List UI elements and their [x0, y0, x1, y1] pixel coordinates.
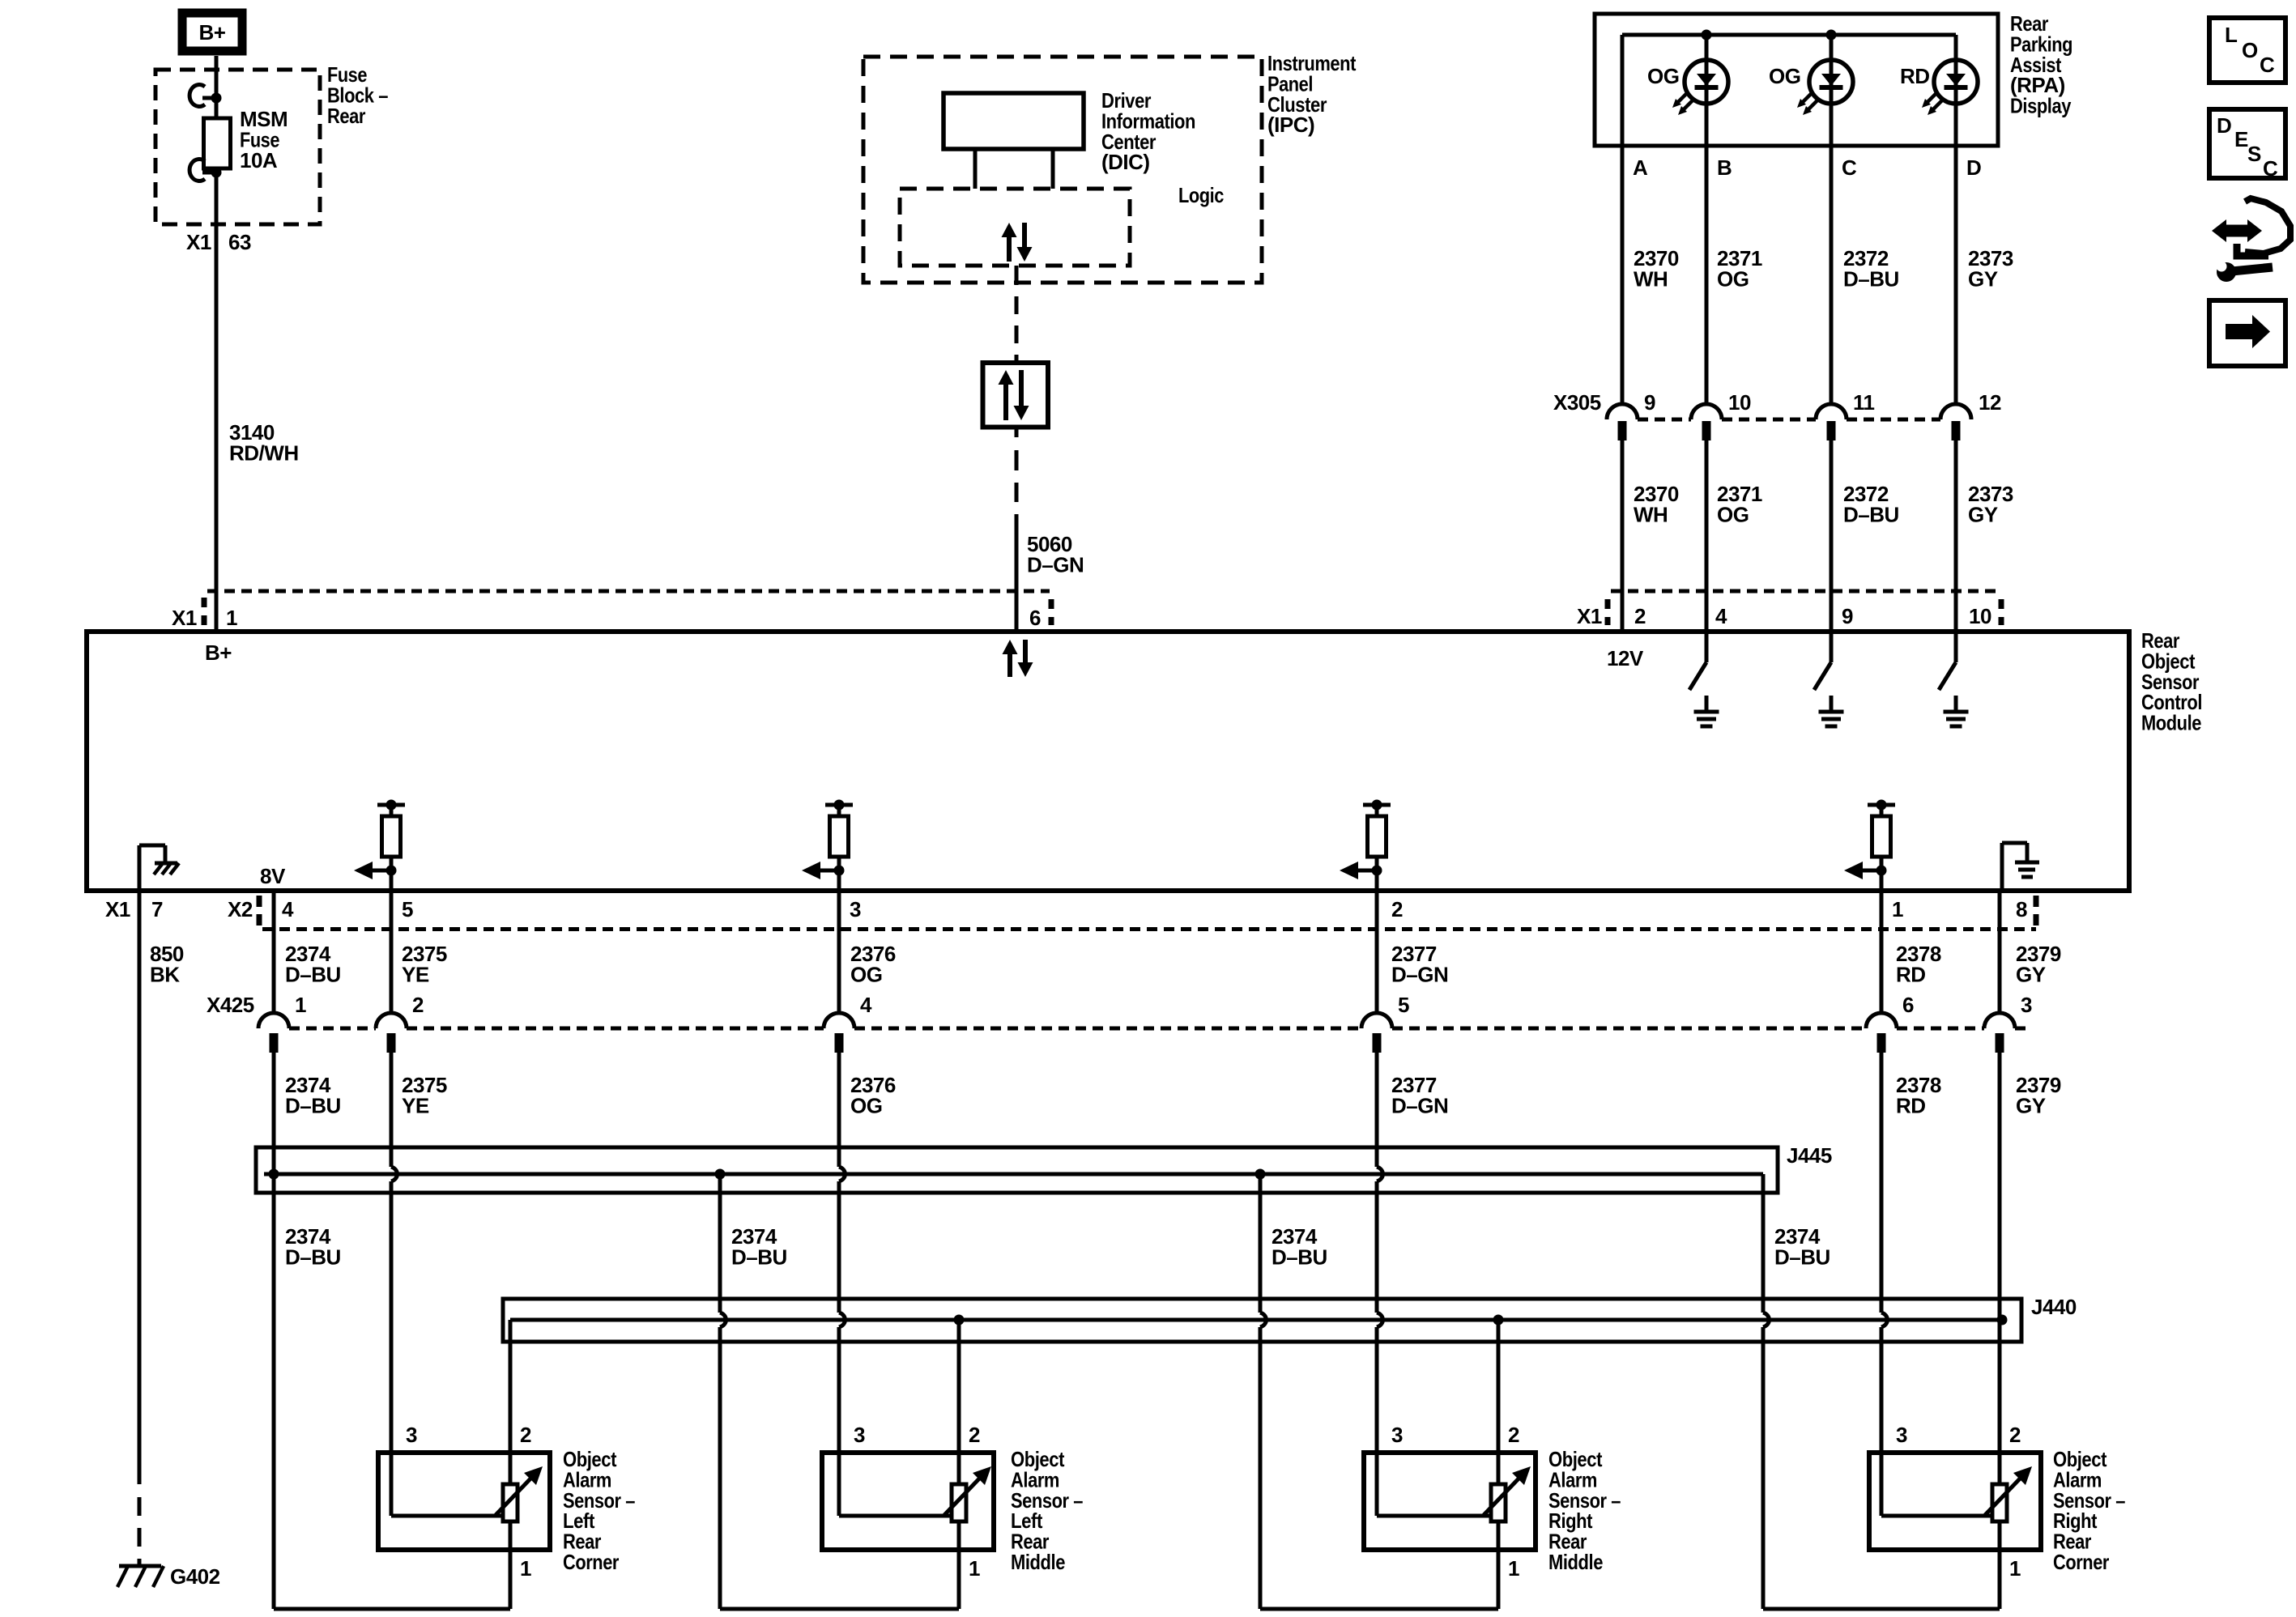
J440 hop 2377 [1377, 1313, 1382, 1327]
fuse terminal clip top [190, 85, 205, 107]
connector X425 dashed line [289, 1027, 376, 1031]
splice pack J445 [256, 1147, 1778, 1193]
wire serial data from Logic [1015, 266, 1019, 285]
J445 junction tap right-middle [1255, 1169, 1266, 1180]
wire X2-8 to X425-3 [1998, 891, 2002, 1013]
sensor 3 pin2 wire [1497, 1453, 1501, 1550]
object alarm sensor 1 box [378, 1453, 550, 1550]
svg-text:A: A [1633, 155, 1648, 180]
wire sensor4 pin1 return [1998, 1550, 2002, 1609]
junction dot B [1702, 30, 1712, 40]
svg-text:1: 1 [1508, 1556, 1519, 1581]
module resistor arrow pin 5 [377, 803, 405, 807]
module internal ground left [138, 845, 142, 891]
connector X425 pin 3 [1984, 1013, 2015, 1028]
wire 850 BK [138, 891, 142, 1484]
svg-text:J440: J440 [2031, 1295, 2077, 1319]
svg-text:Corner: Corner [563, 1550, 619, 1574]
svg-text:X1: X1 [1577, 604, 1602, 628]
module resistor arrow pin 1 [1868, 803, 1895, 807]
module internal ground right [2000, 843, 2004, 891]
svg-text:Rear: Rear [327, 104, 365, 128]
module switch and ground pin 4 [1705, 632, 1709, 662]
svg-text:2: 2 [1391, 897, 1403, 921]
svg-text:B: B [1717, 155, 1732, 180]
fuse block dashed outline [155, 70, 320, 224]
svg-text:1: 1 [969, 1556, 980, 1581]
sensor 4 variable resistor [1992, 1484, 2007, 1521]
sensor 4 pin2 wire [1998, 1453, 2002, 1550]
J445 hop 2375 [391, 1167, 397, 1181]
svg-text:(DIC): (DIC) [1101, 150, 1150, 174]
svg-text:Middle: Middle [1011, 1550, 1065, 1574]
svg-text:Corner: Corner [2053, 1550, 2109, 1574]
icon DESC box [2209, 109, 2285, 178]
wire A inside display [1621, 35, 1625, 404]
connector X425 pin 1 [258, 1013, 289, 1028]
connector X305 pin 9 [1607, 404, 1638, 419]
module serial arrows pin 6 [1003, 640, 1018, 654]
icon hand with arrow and wrench [2223, 225, 2251, 237]
connector X1 separator left [202, 598, 207, 625]
wire sensor1 pin1 return [509, 1550, 513, 1609]
icon LOC box [2209, 18, 2285, 83]
LED OG middle [1809, 60, 1853, 104]
connector X425 pin 6 [1866, 1013, 1897, 1028]
J440 hop mid [1260, 1313, 1266, 1327]
wire X2-4 to X425-1 [272, 891, 276, 1013]
svg-text:5: 5 [1398, 993, 1409, 1017]
svg-text:OG: OG [1717, 502, 1749, 526]
svg-text:4: 4 [860, 993, 872, 1017]
wire X2-3 to X425-4 [837, 891, 841, 1013]
svg-text:D: D [2217, 113, 2231, 138]
wire 3140 RD/WH [215, 168, 219, 632]
svg-text:RD: RD [1896, 962, 1926, 986]
svg-text:10: 10 [1969, 604, 1991, 628]
svg-text:1: 1 [226, 606, 237, 630]
connector X2 dashed line [262, 927, 2036, 931]
svg-text:G402: G402 [170, 1564, 220, 1589]
svg-text:3: 3 [2021, 993, 2032, 1017]
wire 5060 D-GN dashed [1015, 427, 1019, 437]
svg-text:O: O [2242, 38, 2258, 62]
svg-text:GY: GY [1968, 266, 1998, 291]
svg-text:X1: X1 [186, 230, 211, 254]
wire 2370 WH to module [1621, 440, 1625, 632]
svg-text:7: 7 [151, 897, 163, 921]
svg-text:RD: RD [1896, 1093, 1926, 1117]
J440 junction sensor3 pin2 [1493, 1315, 1504, 1326]
junction dot C [1826, 30, 1837, 40]
RPA internal bus [1622, 33, 1956, 37]
svg-text:GY: GY [2016, 962, 2046, 986]
svg-text:C: C [2263, 156, 2278, 181]
svg-text:D–BU: D–BU [285, 962, 341, 986]
svg-text:D–GN: D–GN [1391, 962, 1448, 986]
wire J445 tap to sensor2 pin1 [718, 1174, 722, 1313]
svg-text:2: 2 [1634, 604, 1646, 628]
icon arrow box [2209, 300, 2285, 366]
svg-text:1: 1 [295, 993, 306, 1017]
wire 2377 D-GN to sensor3 [1375, 1053, 1379, 1167]
connector X425 pin 5 [1361, 1013, 1392, 1028]
wire 850 BK dashed to ground [138, 1497, 142, 1565]
serial data symbol arrows [999, 370, 1014, 385]
svg-text:10: 10 [1728, 390, 1751, 415]
svg-text:D–BU: D–BU [1843, 266, 1899, 291]
connector X305 pin 10 [1691, 404, 1722, 419]
svg-text:3: 3 [406, 1423, 417, 1447]
J440 bus [510, 1318, 2002, 1322]
svg-text:8: 8 [2016, 897, 2027, 921]
svg-text:2: 2 [2009, 1423, 2021, 1447]
wire 2373 GY to module [1954, 440, 1958, 632]
sensor 1 pin2 wire [509, 1453, 513, 1550]
svg-text:3: 3 [850, 897, 861, 921]
splice pack J440 [503, 1299, 2021, 1342]
fuse MSM 10A [204, 118, 231, 168]
module switch and ground pin 10 [1954, 632, 1958, 662]
wire B inside display [1705, 35, 1709, 404]
connector X1 dashed line left [207, 589, 1050, 594]
DIC leg left [973, 149, 978, 189]
svg-text:D–BU: D–BU [1843, 502, 1899, 526]
svg-text:1: 1 [2009, 1556, 2021, 1581]
wire 2372 D-BU to module [1830, 440, 1834, 632]
svg-text:Module: Module [2141, 711, 2201, 735]
svg-text:3: 3 [854, 1423, 865, 1447]
Logic dashed outline [900, 189, 1130, 266]
J445 bus [264, 1172, 1763, 1177]
svg-text:D–BU: D–BU [1272, 1245, 1327, 1269]
J440 junction sensor2 pin2 [954, 1315, 965, 1326]
LED RD right [1934, 60, 1978, 104]
connector X425 pin 4 [824, 1013, 854, 1028]
svg-text:C: C [2260, 53, 2275, 77]
svg-text:YE: YE [402, 1093, 429, 1117]
svg-text:D: D [1966, 155, 1981, 180]
sensor 1 variable resistor [503, 1484, 518, 1521]
svg-text:(IPC): (IPC) [1267, 113, 1314, 137]
module resistor arrow pin 2 [1363, 803, 1391, 807]
sensor 3 variable resistor [1491, 1484, 1506, 1521]
svg-text:L: L [2225, 23, 2238, 47]
J445 hop 2377 [1377, 1167, 1382, 1181]
svg-text:12: 12 [1979, 390, 2001, 415]
svg-text:Logic: Logic [1178, 183, 1224, 207]
serial data arrows in Logic box [1002, 223, 1017, 237]
svg-text:3: 3 [1391, 1423, 1403, 1447]
svg-text:D–GN: D–GN [1391, 1093, 1448, 1117]
wire D inside display [1954, 35, 1958, 404]
J445 junction tap left-middle [715, 1169, 726, 1180]
svg-text:2: 2 [412, 993, 424, 1017]
ground G402 [119, 1564, 161, 1568]
svg-text:YE: YE [402, 962, 429, 986]
sensor 2 variable resistor [952, 1484, 966, 1521]
svg-text:D–GN: D–GN [1027, 552, 1084, 577]
wire sensor2 pin1 return [957, 1550, 961, 1609]
svg-text:3: 3 [1896, 1423, 1907, 1447]
svg-text:C: C [1842, 155, 1857, 180]
connector X2 separator right [2034, 896, 2039, 931]
svg-text:9: 9 [1644, 390, 1655, 415]
J440 junction 2379 [1997, 1315, 2008, 1326]
svg-text:B+: B+ [205, 640, 232, 665]
connector X305 dashed line [1638, 418, 1691, 422]
IPC dashed outline [863, 57, 1262, 283]
connector X2 separator left [257, 896, 262, 931]
wire 2375 YE to sensor1 [390, 1053, 394, 1167]
Rear Object Sensor Control Module box [87, 632, 2129, 891]
svg-text:2: 2 [1508, 1423, 1519, 1447]
wire J445 tap to sensor4 pin1 [1761, 1174, 1766, 1313]
sensor 3 internal wire [1375, 1453, 1379, 1516]
sensor 2 pin2 wire [957, 1453, 961, 1550]
svg-text:D–BU: D–BU [285, 1093, 341, 1117]
svg-text:GY: GY [1968, 502, 1998, 526]
wire J440 tap to sensor2 pin2 [957, 1320, 961, 1453]
svg-text:4: 4 [1715, 604, 1727, 628]
svg-text:10A: 10A [240, 148, 278, 172]
svg-text:RD/WH: RD/WH [229, 440, 299, 465]
object alarm sensor 3 box [1364, 1453, 1536, 1550]
sensor 4 internal wire [1880, 1453, 1884, 1516]
object alarm sensor 2 box [822, 1453, 994, 1550]
wire X2-5 to X425-2 [390, 891, 394, 1013]
connector X305 pin 12 [1940, 404, 1971, 419]
sensor 1 internal wire [390, 1453, 394, 1516]
svg-text:D–BU: D–BU [731, 1245, 787, 1269]
svg-text:63: 63 [228, 230, 251, 254]
connector X1 separator right-start [1605, 599, 1611, 625]
object alarm sensor 4 box [1869, 1453, 2041, 1550]
svg-text:5: 5 [402, 897, 413, 921]
wire X2-1 to X425-6 [1880, 891, 1884, 1013]
wire 2378 RD to sensor4 [1880, 1053, 1884, 1313]
J445 hop 2376 [839, 1167, 845, 1181]
wire 2371 OG to module [1705, 440, 1709, 632]
svg-text:BK: BK [150, 962, 180, 986]
svg-text:X1: X1 [105, 897, 130, 921]
svg-text:4: 4 [282, 897, 294, 921]
svg-text:9: 9 [1842, 604, 1853, 628]
svg-text:2: 2 [520, 1423, 531, 1447]
svg-text:11: 11 [1853, 390, 1875, 415]
LED OG left [1685, 60, 1728, 104]
svg-text:X425: X425 [207, 993, 254, 1017]
connector X305 pin 11 [1816, 404, 1847, 419]
DIC box [944, 93, 1084, 149]
wire J440 tap to sensor3 pin2 [1497, 1320, 1501, 1453]
wire J440 left end to sensor1 pin2 [509, 1320, 513, 1453]
wire sensor3 pin1 return [1497, 1550, 1501, 1609]
svg-text:WH: WH [1634, 502, 1668, 526]
svg-text:6: 6 [1902, 993, 1914, 1017]
DIC leg right [1051, 149, 1055, 189]
svg-text:X2: X2 [228, 897, 253, 921]
J440 hop first [720, 1313, 726, 1327]
svg-text:Middle: Middle [1548, 1550, 1603, 1574]
svg-text:D–BU: D–BU [1774, 1245, 1830, 1269]
svg-text:8V: 8V [260, 864, 286, 888]
fuse terminal clip bottom [190, 160, 205, 181]
svg-text:X1: X1 [172, 606, 197, 630]
module switch and ground pin 9 [1830, 632, 1834, 662]
svg-text:Display: Display [2010, 94, 2072, 118]
svg-text:X305: X305 [1553, 390, 1601, 415]
J440 hop 2376 [839, 1313, 845, 1327]
wire from B+ to fuse [215, 56, 219, 118]
svg-text:OG: OG [850, 1093, 882, 1117]
J440 hop right tap [1763, 1313, 1769, 1327]
svg-text:OG: OG [1717, 266, 1749, 291]
wire 2376 OG to sensor2 [837, 1053, 841, 1167]
svg-text:OG: OG [850, 962, 882, 986]
svg-text:D–BU: D–BU [285, 1245, 341, 1269]
J445 junction at 2374 [269, 1169, 279, 1180]
connector X1 separator pin6 [1049, 599, 1054, 625]
wire J445 tap to sensor3 pin1 [1259, 1174, 1263, 1313]
svg-text:2: 2 [969, 1423, 980, 1447]
wire C inside display [1830, 35, 1834, 404]
svg-text:12V: 12V [1607, 646, 1644, 670]
svg-text:1: 1 [1892, 897, 1903, 921]
svg-text:OG: OG [1647, 64, 1679, 88]
svg-text:B+: B+ [199, 20, 226, 45]
module resistor arrow pin 3 [825, 803, 853, 807]
wire 2379 GY to sensor4 [1998, 1053, 2002, 1453]
svg-text:OG: OG [1769, 64, 1800, 88]
battery feed B+ box [182, 13, 242, 51]
serial data symbol box [983, 363, 1049, 428]
svg-text:RD: RD [1900, 64, 1930, 88]
J440 hop 2378 [1881, 1313, 1887, 1327]
svg-text:WH: WH [1634, 266, 1668, 291]
connector X1 dashed line right [1611, 589, 2000, 594]
sensor 2 internal wire [837, 1453, 841, 1516]
svg-text:GY: GY [2016, 1093, 2046, 1117]
connector X425 pin 2 [376, 1013, 407, 1028]
svg-text:6: 6 [1029, 606, 1041, 630]
wire 2374 D-BU main [272, 1053, 276, 1609]
svg-text:E: E [2234, 127, 2248, 151]
connector X1 separator right-end [1999, 599, 2004, 625]
svg-text:J445: J445 [1787, 1143, 1832, 1168]
svg-text:1: 1 [520, 1556, 531, 1581]
wire X2-2 to X425-5 [1375, 891, 1379, 1013]
svg-text:S: S [2247, 142, 2261, 166]
RPA display box [1595, 14, 1998, 146]
